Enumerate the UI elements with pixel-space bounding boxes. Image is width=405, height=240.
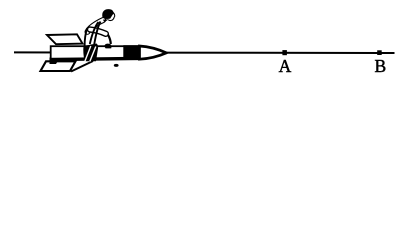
person: shin	[108, 35, 111, 44]
black band	[123, 45, 139, 59]
tail attachment wedge	[50, 58, 61, 65]
wire main horizontal line	[14, 51, 395, 54]
node A dot	[282, 50, 287, 55]
rocket body	[51, 46, 140, 59]
node B dot	[377, 50, 382, 55]
svg-text:A: A	[279, 56, 292, 76]
person: thigh fill (white)	[90, 30, 106, 34]
nose cone	[140, 46, 167, 59]
top fin	[47, 34, 83, 44]
speck below body	[114, 64, 119, 67]
finger/leg white slashes	[85, 46, 91, 62]
person: torso outline (black)	[88, 20, 104, 32]
person: face profile outline	[108, 12, 115, 21]
svg-text:B: B	[374, 56, 386, 76]
person: grip mass (hands+feet over body side)	[83, 44, 98, 62]
bottom fin	[41, 61, 76, 71]
far bottom fin trailing edge	[71, 61, 93, 72]
person: foot on body	[105, 44, 112, 49]
person: torso fill (white)	[88, 20, 104, 32]
person: face	[108, 11, 115, 20]
person: neck	[103, 19, 109, 21]
person: thigh outline (black)	[90, 30, 106, 34]
person: near arm	[94, 22, 100, 45]
person: head hair	[102, 9, 113, 19]
person: far arm	[90, 22, 99, 44]
rocket body bottom thick edge	[51, 58, 140, 59]
person: far leg	[85, 29, 87, 47]
